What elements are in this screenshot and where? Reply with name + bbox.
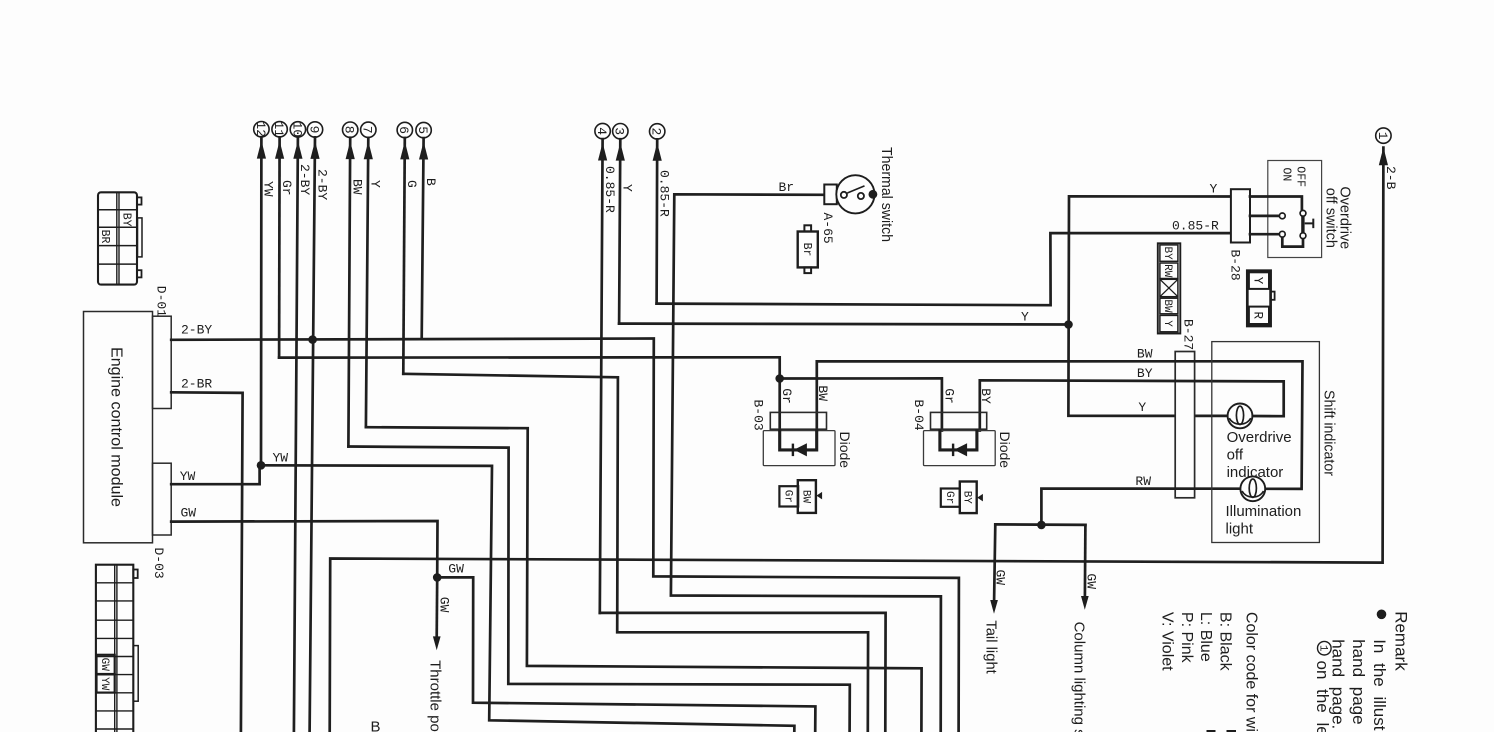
wire BY from B-04 to overdrive lamp [980,380,1284,430]
svg-text:V: Violet: V: Violet [1159,612,1176,671]
svg-text:0.85-R: 0.85-R [602,166,617,213]
svg-text:BY: BY [120,213,133,227]
wire GW short run [995,523,1085,526]
node pin 5 (circled 5, wire B) [416,122,431,137]
svg-text:D-01: D-01 [154,286,169,317]
lamp overdrive off indicator [1228,404,1253,429]
junction dot GW lighting [1037,521,1046,530]
svg-text:In the illust: In the illust [1370,639,1389,731]
svg-text:Overdrive: Overdrive [1227,429,1292,446]
svg-text:3: 3 [612,127,627,135]
overdrive off switch box [1268,161,1322,258]
svg-text:GW: GW [448,562,464,577]
svg-text:2-BY: 2-BY [181,323,212,338]
svg-text:Y: Y [368,180,383,188]
wire pin6 vertical G [403,138,405,374]
svg-text:P: Pink: P: Pink [1178,612,1195,664]
svg-text:off switch: off switch [1322,188,1338,248]
svg-text:B-28: B-28 [1228,250,1243,281]
wire pin8 vertical BW [348,138,350,447]
wire GW arrow to column lighting switch [1084,525,1087,597]
wire pin7 Y staircase [366,427,922,732]
svg-text:B-27: B-27 [1180,319,1195,350]
svg-text:Remark: Remark [1392,611,1411,671]
wire pin4 0.85-R staircase [600,613,886,732]
lamp illumination light [1240,476,1265,501]
svg-text:Shift indicator: Shift indicator [1320,390,1337,476]
svg-text:YW: YW [98,677,110,691]
svg-text:BW: BW [1137,347,1153,362]
svg-text:Gr: Gr [779,388,794,404]
svg-text:GW: GW [1084,573,1099,589]
svg-text:BY: BY [961,491,973,505]
svg-text:Y: Y [1251,277,1265,285]
wire pin8 BW staircase [348,447,849,732]
wire pin12 vertical YW [260,137,263,465]
svg-text:ON: ON [1279,168,1292,182]
wire pin2 vertical 0.85-R [655,139,658,303]
wire YW staircase to bottom [261,465,794,732]
wire BW from B-03 to illumination lamp [817,361,1303,489]
svg-text:8: 8 [342,126,357,134]
svg-text:Diode: Diode [837,432,853,469]
svg-text:Throttle positi: Throttle positi [427,660,444,732]
svg-text:2-BR: 2-BR [181,377,212,392]
svg-text:Y: Y [620,184,635,192]
svg-text:A-65: A-65 [820,213,835,244]
wire 0.85-R pin2 to B-28 [657,233,1231,305]
svg-text:BY: BY [1137,366,1153,381]
wire pin5 vertical B [422,138,424,338]
svg-text:Gr: Gr [943,491,955,504]
wire 2-BR from D-01 down [171,392,242,732]
wire pin10 vertical 2-BY [294,137,298,732]
diode B-03 [770,412,826,429]
svg-text:BY: BY [978,388,993,404]
fuse Br box [798,232,818,268]
wire 2-B pin1 long run [330,148,1384,732]
svg-text:OFF: OFF [1293,166,1306,187]
svg-text:BW: BW [1161,299,1173,313]
wire pin6 G staircase [403,374,868,732]
wire Gr from pin11 to B-03 and B-04 [279,357,780,430]
svg-text:Column lighting sw: Column lighting sw [1071,622,1088,732]
svg-text:B-03: B-03 [751,400,766,431]
svg-text:YW: YW [180,469,196,484]
svg-text:GW: GW [993,570,1008,586]
node pin 10 (circled 10, wire 2-BY) [290,122,305,137]
connector strip B-27 harness (BY RW X BW Y) [1158,243,1181,333]
junction dot GW [433,573,442,582]
svg-text:Tail light: Tail light [983,620,1000,674]
connector tab D-03 on ECM [153,463,172,535]
svg-text:RW: RW [1135,474,1151,489]
connector D-01 pin-face grid with BY BR cells [98,192,137,284]
svg-text:L: Blue: L: Blue [1197,612,1214,662]
junction dot Gr [775,374,784,383]
svg-text:Diode: Diode [997,432,1013,469]
svg-text:Color code for wi: Color code for wi [1243,612,1260,732]
connector D-03 pin-face grid with GW YW cells [96,565,133,732]
wire pin4 vertical 0.85-R [600,139,603,613]
svg-text:BW: BW [799,490,811,504]
svg-text:BW: BW [815,385,830,401]
node pin 9 (circled 9, wire 2-BY) [307,122,322,137]
junction dot YW on pin12 wire [257,461,266,470]
wire YW from D-03 up to pin12 junction [171,467,259,484]
svg-text:B-04: B-04 [911,400,926,431]
svg-text:Engine control module: Engine control module [108,347,125,507]
svg-text:R: R [1251,311,1265,319]
switch wiring and contacts [1250,197,1302,211]
svg-text:5: 5 [415,126,430,134]
node pin 6 (circled 6, wire G) [397,122,412,137]
engine control module box [84,312,153,543]
node pin 2 (circled 2, wire 0.85-R) [650,124,665,139]
svg-text:light: light [1226,521,1254,538]
svg-text:Gr: Gr [941,388,956,404]
wire GW from D-03 to throttle junction [171,521,437,577]
connector Y/R [1247,271,1270,326]
node pin 11 (circled 11, wire Gr) [272,122,287,137]
node pin 12 (circled 12, wire YW) [254,122,269,137]
svg-text:Br: Br [779,180,795,195]
svg-text:12: 12 [253,121,268,137]
svg-text:off: off [1227,447,1244,464]
svg-text:GW: GW [181,506,197,521]
svg-text:YW: YW [261,181,276,197]
junction dot on pin9 wire (2-BY) [308,335,317,344]
svg-text:1: 1 [1375,132,1390,140]
connector B-28 (covers wires) [1231,189,1250,242]
svg-text:10: 10 [289,122,304,138]
svg-text:BR: BR [98,230,111,244]
terminal pair Gr/BY (B-04 harness) [941,489,960,507]
wire pin11 vertical Gr [278,137,281,357]
shift indicator box [1212,342,1320,543]
svg-text:11: 11 [271,121,286,137]
svg-text:6: 6 [396,126,411,134]
wire pin3 vertical Y [619,139,620,323]
svg-text:2-B: 2-B [1383,166,1398,190]
connector B-27 [1175,352,1194,498]
svg-text:BY: BY [1161,246,1173,260]
thermal switch A-65 [824,185,837,205]
svg-text:Thermal switch: Thermal switch [878,147,895,242]
svg-text:Y: Y [1161,320,1173,327]
svg-text:2-BY: 2-BY [297,164,312,195]
svg-text:Gr: Gr [781,490,793,503]
wire RW from B-27 to illumination lamp [1041,489,1240,525]
svg-text:2: 2 [649,128,664,136]
svg-text:Y: Y [1021,310,1029,325]
wire pin7 vertical Y [366,138,368,427]
svg-text:Gr: Gr [279,180,294,196]
svg-text:on the le: on the le [1313,661,1332,732]
svg-text:hand page an: hand page an [1349,639,1368,732]
terminal pair Gr/BW (B-03 harness) [779,486,798,506]
svg-text:G: G [404,180,419,188]
svg-text:0.85-R: 0.85-R [1172,218,1219,233]
svg-text:2-BY: 2-BY [314,169,329,200]
svg-text:Illumination: Illumination [1226,503,1302,520]
wire 2-BY from D-01 to pin9/pin5 staircase [171,339,959,732]
wire GW arrow to throttle position sensor [435,577,438,637]
svg-text:7: 7 [360,126,375,134]
node pin 3 (circled 3, wire Y) [613,124,628,139]
svg-text:4: 4 [594,127,609,135]
node pin 7 (circled 7, wire Y) [361,122,376,137]
svg-text:GW: GW [437,597,452,613]
svg-text:1: 1 [1316,645,1328,652]
svg-text:Br: Br [800,243,813,257]
wire GW arrow to tail light [994,524,995,600]
svg-text:D-03: D-03 [151,548,166,579]
svg-text:YW: YW [273,450,289,465]
svg-text:Y: Y [1210,182,1218,197]
node pin 4 (circled 4, wire 0.85-R) [595,123,610,138]
connector tab D-01 on ECM [153,316,172,408]
wire pin9 vertical 2-BY [310,137,315,732]
svg-text:Y: Y [1138,400,1146,415]
svg-text:B: B [423,178,438,186]
node pin 1 (circled 1, wire 2-B) [1376,128,1391,143]
svg-text:BW: BW [350,179,365,195]
svg-text:0.85-R: 0.85-R [657,170,672,217]
node pin 8 (circled 8, wire BW) [343,122,358,137]
junction dot Y [1064,320,1073,329]
svg-text:B: B [371,719,381,732]
wire GW branch staircase to bottom [437,577,815,732]
diode B-04 [931,412,987,429]
wire Br from thermal switch staircase [671,194,941,732]
wire Y from B-28 down to lamp feed [1068,196,1231,416]
wire Y from pin3 [619,322,1068,326]
svg-text:9: 9 [306,126,321,134]
svg-text:GW: GW [98,658,110,672]
svg-text:B: Black: B: Black [1217,612,1234,672]
svg-text:RW: RW [1161,264,1173,278]
